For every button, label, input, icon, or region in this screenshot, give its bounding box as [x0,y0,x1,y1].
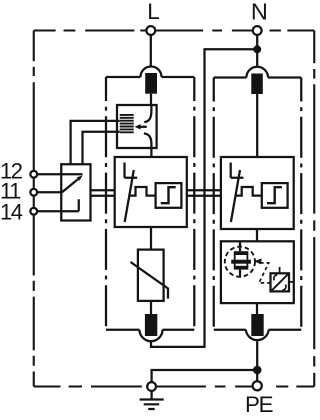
step pulse glyph [161,187,176,203]
thermal disconnect hatch [120,115,134,132]
spark gap electrode bracket N [231,163,244,178]
wire to PE junction [256,341,258,381]
junction PE [253,366,262,375]
right module right edge (dash-dot) [300,78,302,330]
isolating spark gap leads [280,267,294,282]
wire cartridge to spark gap N [256,94,258,157]
varistor [138,250,164,301]
left module top edge [106,76,194,78]
terminal L [146,26,155,35]
remote signalling wire upper [71,121,120,164]
wire 14 [37,199,79,211]
cartridge (disconnector) right top [251,74,262,95]
terminal earth (device ground) [147,382,156,391]
GDT bottom lead [239,270,241,278]
right module left edge (dash-dot) [213,78,215,330]
right module bottom edge [214,329,302,331]
wire N-PE box to bottom cartridge [256,303,258,314]
wire cartridge to monitoring box [150,94,152,105]
disconnector contact upper hook [144,105,151,122]
terminal PE [253,381,262,390]
bus wires left pair [91,190,115,196]
terminal N [253,26,262,35]
svg-text:PE: PE [245,392,273,417]
earth symbol [140,400,164,410]
bus wires middle pair [187,190,221,196]
trip arrow [140,126,147,128]
device border bottom edge [34,385,315,387]
svg-text:14: 14 [0,200,23,225]
device border (dash-dot enclosure) [34,31,315,387]
junction N branch [253,45,261,53]
wire left module bottom to N branch [151,49,257,347]
wire spark gap to varistor [150,227,152,250]
spark gap trigger step wire N [235,187,262,196]
left module right edge (dash-dot) [193,77,195,330]
isolating spark gap box [271,273,290,291]
N-PE spark gap box [221,241,294,303]
spark gap electrode bracket [125,163,138,178]
cartridge (disconnector) left top [145,73,157,94]
step pulse glyph N [267,187,282,203]
wire L drop [150,35,152,67]
GDT top lead [239,241,241,251]
device border top edge [34,29,315,31]
GDT electrodes [234,251,249,255]
trigger electronics box [156,183,182,208]
spark gap box L (left module) [115,157,187,227]
isolating spark gap diagonal [272,274,288,290]
disconnector contact lower hook [144,133,152,148]
plug contact arc top right [246,67,268,78]
plug contact arc bottom left [140,330,163,342]
left module left edge (dash-dot) [105,77,107,330]
plug contact arc top left [141,67,162,78]
device border left edge [33,31,35,387]
cartridge (disconnector) right bottom [251,314,263,336]
spark gap blade N [231,170,240,222]
dashed action arrow [259,263,271,283]
varistor diagonal [131,262,169,299]
terminal 11 [30,189,37,196]
svg-text:L: L [147,0,160,24]
remote contact box [61,164,90,220]
wire 12 [37,173,82,175]
wire N drop [256,35,258,67]
right module top edge [214,76,302,78]
isolating spark gap curls [274,275,277,280]
spark gap blade [125,170,134,222]
wire spark gap N to N-PE box [256,229,258,241]
terminal 12 [30,171,37,178]
cartridge (disconnector) left bottom [145,314,157,336]
wire varistor to bottom cartridge [150,301,152,314]
wire monitoring to spark gap [150,148,152,157]
spark gap trigger step wire [129,187,156,196]
remote signalling wire lower [83,132,120,165]
changeover blade [62,179,78,192]
spark gap box N (right module) [221,157,294,229]
monitoring device box [117,105,157,148]
wire 11 [37,191,62,193]
left module bottom edge [106,329,194,331]
wire PE junction to earth terminal [152,370,258,382]
trigger electronics box N [262,183,288,208]
terminal 14 [30,208,37,215]
earth stub [150,391,152,399]
device border right edge [313,31,315,387]
svg-text:N: N [251,0,268,24]
gas discharge tube dashed circle [225,247,255,277]
plug contact arc bottom right [246,330,269,340]
